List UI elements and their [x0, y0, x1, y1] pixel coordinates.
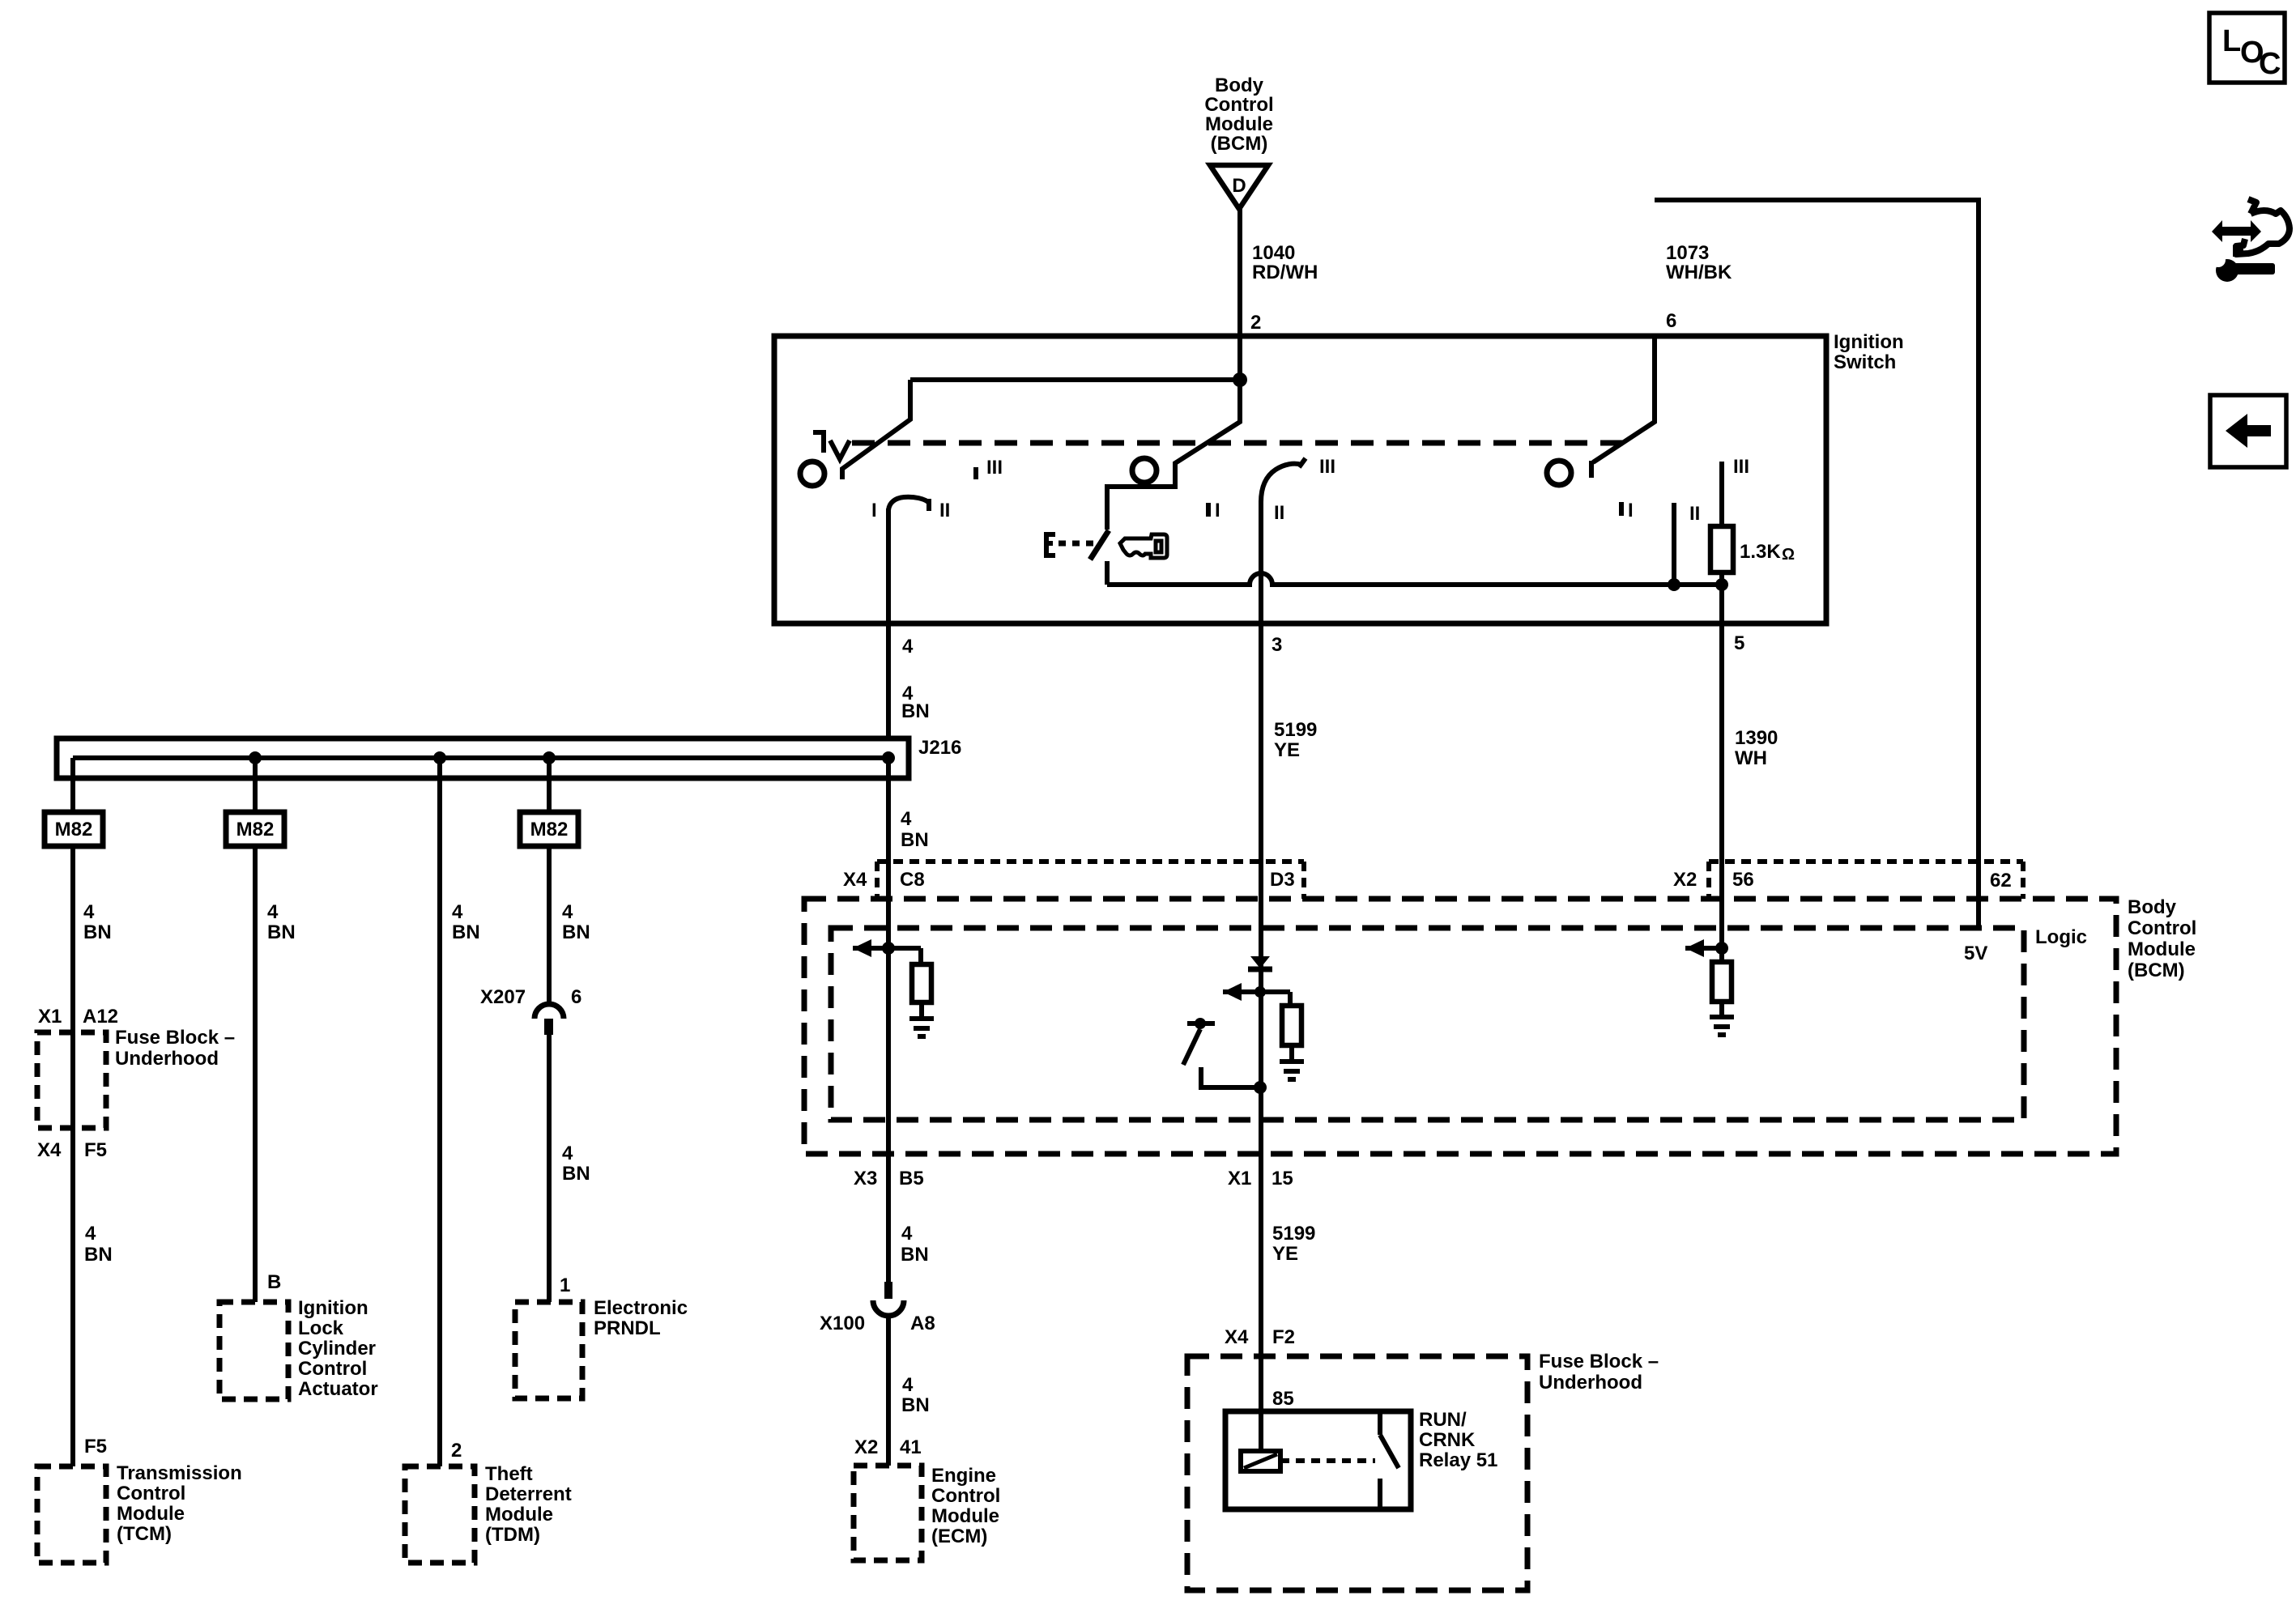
- position tick III (S1): [973, 467, 978, 479]
- svg-text:M82: M82: [55, 819, 93, 840]
- svg-text:B: B: [267, 1271, 281, 1293]
- svg-text:Control: Control: [931, 1485, 1000, 1507]
- svg-text:F2: F2: [1272, 1326, 1295, 1348]
- mechanical link dashed line: [852, 440, 1626, 446]
- label Body Control Module (BCM) top: [1204, 74, 1273, 155]
- svg-text:Switch: Switch: [1834, 351, 1896, 373]
- svg-text:BN: BN: [901, 700, 930, 722]
- svg-text:Fuse Block –: Fuse Block –: [1539, 1351, 1659, 1372]
- svg-text:5199: 5199: [1272, 1223, 1315, 1245]
- icon back arrow box: [2210, 395, 2286, 467]
- svg-text:X2: X2: [1673, 869, 1697, 891]
- pulldown resistor C8: [918, 948, 923, 964]
- svg-text:Control: Control: [1204, 94, 1273, 116]
- svg-text:41: 41: [900, 1436, 922, 1458]
- connector X4 slim box: [877, 862, 1304, 899]
- svg-text:BN: BN: [84, 1244, 113, 1266]
- svg-text:Module: Module: [2128, 938, 2196, 960]
- wire col1 down: [70, 846, 75, 1466]
- svg-text:1390: 1390: [1735, 727, 1778, 749]
- switch blade S1: [842, 380, 910, 479]
- svg-text:L: L: [2222, 24, 2241, 58]
- svg-text:1.3K: 1.3K: [1740, 541, 1781, 563]
- splice J216 outline: [57, 738, 909, 778]
- svg-text:D: D: [1232, 175, 1246, 197]
- contact line position II (S3): [1672, 503, 1676, 585]
- theft deterrent module box: [405, 1466, 475, 1563]
- switch blade S3: [1591, 336, 1655, 478]
- svg-text:Relay 51: Relay 51: [1419, 1449, 1497, 1471]
- svg-text:4: 4: [901, 1223, 913, 1245]
- svg-text:III: III: [1733, 456, 1749, 478]
- svg-text:Underhood: Underhood: [1539, 1372, 1642, 1394]
- switch blade S2 (run/crank): [1107, 380, 1240, 530]
- wire col3 down: [437, 758, 442, 1466]
- svg-text:(ECM): (ECM): [931, 1526, 987, 1547]
- svg-text:Control: Control: [117, 1483, 185, 1504]
- svg-text:4: 4: [85, 1223, 96, 1245]
- junction node II-S3: [1668, 578, 1680, 591]
- relay dashed actuation link: [1280, 1458, 1375, 1463]
- svg-text:4: 4: [267, 901, 279, 923]
- svg-text:YE: YE: [1272, 1243, 1298, 1265]
- wire 1390 WH: [1719, 572, 1724, 962]
- svg-text:II: II: [1274, 502, 1284, 524]
- relay coil: [1241, 1451, 1280, 1471]
- key symbol: [1120, 534, 1167, 558]
- logic switch contact bar: [1187, 1021, 1215, 1026]
- icon connector-service glyph: [2211, 199, 2290, 282]
- svg-text:2: 2: [451, 1440, 462, 1462]
- svg-text:Ignition: Ignition: [298, 1297, 368, 1319]
- svg-text:RD/WH: RD/WH: [1252, 262, 1318, 283]
- ignition switch enclosure: [774, 336, 1826, 623]
- switch pivot circle S2: [1132, 458, 1157, 483]
- contact line position III (S3): [1719, 462, 1724, 526]
- svg-text:C: C: [2259, 47, 2281, 81]
- splice J216 internal bus wire: [73, 755, 888, 760]
- switch pivot circle S1: [800, 462, 824, 486]
- ignition lock cylinder control actuator box: [219, 1302, 288, 1399]
- svg-text:I: I: [871, 500, 877, 521]
- svg-text:4: 4: [562, 901, 573, 923]
- connector M82 col1: [45, 812, 103, 846]
- relay enclosure: [1225, 1411, 1411, 1509]
- svg-text:BN: BN: [267, 921, 296, 943]
- svg-text:III: III: [1319, 456, 1335, 478]
- svg-text:BN: BN: [562, 921, 590, 943]
- position tick I (S2): [1206, 503, 1211, 517]
- svg-text:Transmission: Transmission: [117, 1462, 242, 1484]
- svg-text:1: 1: [560, 1274, 570, 1296]
- svg-text:Control: Control: [298, 1358, 367, 1380]
- svg-text:I: I: [1628, 500, 1634, 521]
- svg-text:II: II: [939, 500, 950, 521]
- junction node D3 arrow: [1254, 986, 1266, 998]
- wire col2 down: [253, 846, 258, 1302]
- svg-text:6: 6: [1666, 310, 1676, 332]
- svg-text:2: 2: [1250, 312, 1261, 334]
- connector X207 socket arc: [535, 1004, 564, 1019]
- svg-text:3: 3: [1272, 634, 1282, 656]
- engine control module box: [854, 1466, 922, 1560]
- accessory position symbol: [813, 432, 824, 453]
- transmission control module box: [37, 1466, 106, 1563]
- svg-text:X4: X4: [843, 869, 867, 891]
- svg-text:Engine: Engine: [931, 1465, 996, 1487]
- wire col4 to X207: [547, 846, 552, 1004]
- icon LOC box: [2209, 13, 2285, 83]
- svg-text:56: 56: [1732, 869, 1754, 891]
- svg-text:X207: X207: [480, 986, 526, 1008]
- svg-text:I: I: [1215, 500, 1220, 521]
- svg-text:CRNK: CRNK: [1419, 1429, 1476, 1451]
- pulldown resistor D3: [1288, 992, 1293, 1006]
- connector M82 col4: [520, 812, 578, 846]
- svg-text:Lock: Lock: [298, 1317, 344, 1339]
- contact curve position III (S2): [1261, 458, 1306, 502]
- junction node pin2: [1233, 372, 1247, 387]
- switch pivot circle S3: [1547, 461, 1571, 485]
- svg-text:Theft: Theft: [485, 1463, 533, 1485]
- svg-text:Logic: Logic: [2035, 926, 2087, 948]
- svg-text:Module: Module: [117, 1503, 185, 1525]
- svg-text:X4: X4: [1225, 1326, 1249, 1348]
- connector X100 socket arc: [873, 1300, 904, 1316]
- connector triangle D: [1210, 165, 1268, 209]
- D3 input arrow: [1223, 983, 1242, 1001]
- bottom common wire inside switch: [1107, 573, 1722, 585]
- svg-text:C8: C8: [900, 869, 925, 891]
- svg-text:Module: Module: [931, 1505, 999, 1527]
- wire S1 blade to node: [910, 377, 1240, 382]
- svg-text:BN: BN: [901, 1394, 930, 1416]
- svg-text:BN: BN: [562, 1163, 590, 1185]
- wire bus to M82 col2: [253, 758, 258, 812]
- wire 4 BN bus to X100: [886, 758, 891, 1282]
- svg-text:X1: X1: [1228, 1168, 1251, 1189]
- svg-text:Module: Module: [485, 1504, 553, 1526]
- svg-text:(BCM): (BCM): [1211, 133, 1268, 155]
- svg-text:Cylinder: Cylinder: [298, 1338, 376, 1360]
- svg-text:J216: J216: [918, 737, 961, 759]
- svg-text:(TCM): (TCM): [117, 1523, 172, 1545]
- junction node resistor: [1715, 578, 1728, 591]
- svg-text:BN: BN: [452, 921, 480, 943]
- svg-text:4: 4: [452, 901, 463, 923]
- ground D3: [1280, 1062, 1304, 1079]
- svg-text:5199: 5199: [1274, 719, 1317, 741]
- svg-text:III: III: [986, 457, 1003, 479]
- ground C8: [909, 1019, 934, 1036]
- svg-text:4: 4: [902, 636, 914, 657]
- svg-text:Ignition: Ignition: [1834, 331, 1904, 353]
- wire 5199 YE: [1259, 500, 1263, 1451]
- position tick I (S3): [1619, 502, 1624, 516]
- junction node col2: [249, 751, 262, 764]
- wire 1040 RD/WH from D to ignition switch: [1237, 209, 1242, 422]
- svg-text:Module: Module: [1205, 113, 1273, 135]
- ground 56: [1710, 1017, 1734, 1035]
- svg-text:A8: A8: [910, 1313, 935, 1334]
- fuse block underhood pass-through box: [37, 1032, 106, 1128]
- wire X207 down: [547, 1035, 552, 1302]
- logic switch blade: [1183, 1029, 1200, 1065]
- connector X100 pin: [884, 1282, 892, 1299]
- wire bus to M82 col1: [70, 758, 75, 812]
- BCM logic dashed box: [831, 928, 2024, 1120]
- svg-text:Body: Body: [1215, 74, 1264, 96]
- svg-text:YE: YE: [1274, 739, 1300, 761]
- key switch blade: [1090, 530, 1109, 560]
- svg-text:WH/BK: WH/BK: [1666, 262, 1732, 283]
- contact arc position II (S1): [888, 497, 928, 510]
- connector M82 col2: [226, 812, 284, 846]
- C8 input arrow: [853, 939, 871, 957]
- svg-text:Underhood: Underhood: [115, 1048, 219, 1070]
- svg-text:B5: B5: [899, 1168, 924, 1189]
- svg-text:X4: X4: [37, 1139, 62, 1161]
- svg-text:PRNDL: PRNDL: [594, 1317, 661, 1339]
- svg-text:BN: BN: [901, 1244, 929, 1266]
- svg-text:Actuator: Actuator: [298, 1378, 378, 1400]
- pulldown resistor 56: [1712, 962, 1732, 1002]
- junction node col4: [543, 751, 556, 764]
- svg-text:Deterrent: Deterrent: [485, 1483, 572, 1505]
- svg-text:6: 6: [571, 986, 581, 1008]
- svg-text:BN: BN: [901, 829, 929, 851]
- electronic PRNDL box: [515, 1302, 582, 1398]
- svg-text:M82: M82: [236, 819, 275, 840]
- svg-text:F5: F5: [84, 1139, 107, 1161]
- junction node pin4 branch: [882, 751, 895, 764]
- svg-text:4: 4: [562, 1143, 573, 1164]
- junction node 56: [1715, 942, 1728, 955]
- svg-text:5: 5: [1734, 632, 1744, 654]
- svg-text:4: 4: [902, 1374, 914, 1396]
- logic switch node: [1195, 1018, 1206, 1029]
- svg-text:II: II: [1689, 503, 1700, 525]
- svg-text:F5: F5: [84, 1436, 107, 1457]
- svg-text:15: 15: [1272, 1168, 1293, 1189]
- svg-text:X2: X2: [854, 1436, 878, 1458]
- resistor 1.3K: [1710, 526, 1733, 572]
- svg-text:1040: 1040: [1252, 242, 1295, 264]
- logic switch lower wire: [1201, 1067, 1260, 1087]
- dashed link E to key blade: [1059, 541, 1095, 547]
- svg-text:5V: 5V: [1964, 943, 1987, 964]
- fuse block underhood dashed box: [1187, 1356, 1527, 1590]
- svg-text:X100: X100: [820, 1313, 865, 1334]
- junction node col3: [433, 751, 446, 764]
- svg-text:D3: D3: [1270, 869, 1295, 891]
- svg-text:(TDM): (TDM): [485, 1524, 540, 1546]
- svg-text:X1: X1: [38, 1006, 62, 1028]
- junction node C8: [882, 942, 895, 955]
- svg-text:X3: X3: [854, 1168, 877, 1189]
- svg-text:Body: Body: [2128, 896, 2177, 918]
- connector X207 pin: [544, 1019, 553, 1035]
- key switch lower contact: [1105, 561, 1110, 585]
- svg-text:Electronic: Electronic: [594, 1297, 688, 1319]
- connector X2 slim box: [1709, 862, 2023, 899]
- wire 4 BN upper: [886, 509, 891, 738]
- svg-text:4: 4: [901, 808, 912, 830]
- svg-text:4: 4: [83, 901, 95, 923]
- svg-text:Fuse Block –: Fuse Block –: [115, 1027, 235, 1049]
- svg-text:1073: 1073: [1666, 242, 1709, 264]
- svg-text:85: 85: [1272, 1388, 1294, 1410]
- svg-text:BN: BN: [83, 921, 112, 943]
- wire 1073 WH/BK top run: [1655, 200, 1979, 928]
- label E: [1046, 534, 1055, 555]
- wire X100 to ECM: [886, 1316, 891, 1466]
- svg-text:Control: Control: [2128, 917, 2196, 939]
- wire resistor to box bottom: [1719, 572, 1724, 623]
- svg-text:RUN/: RUN/: [1419, 1409, 1467, 1431]
- svg-text:(BCM): (BCM): [2128, 960, 2185, 981]
- svg-text:M82: M82: [530, 819, 569, 840]
- relay contact: [1380, 1411, 1399, 1509]
- svg-text:62: 62: [1990, 870, 2012, 891]
- junction node D3 lower: [1254, 1081, 1267, 1094]
- svg-text:WH: WH: [1735, 747, 1767, 769]
- svg-text:Ω: Ω: [1782, 546, 1795, 564]
- wire bus to M82 col4: [547, 758, 552, 812]
- svg-text:A12: A12: [83, 1006, 118, 1028]
- BCM outer dashed box: [804, 899, 2116, 1154]
- diode D3 input: [1250, 956, 1270, 968]
- 56 input arrow: [1685, 939, 1704, 957]
